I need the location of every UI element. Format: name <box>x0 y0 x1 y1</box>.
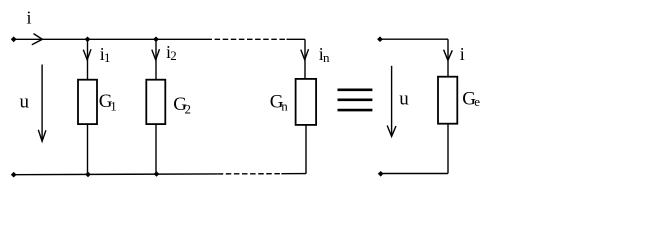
current arrow i2 <box>152 49 160 60</box>
wire: branch n lower <box>305 125 307 174</box>
svg-text:1: 1 <box>110 98 117 113</box>
svg-text:2: 2 <box>185 101 192 116</box>
wire: top rail dashed middle <box>207 38 287 40</box>
current arrow i (right) <box>444 50 453 61</box>
current arrow i on top rail <box>32 34 43 45</box>
equivalence symbol (three bars) <box>338 90 373 110</box>
conductance G2 (box) <box>146 80 165 124</box>
wire: branch1 lower <box>87 124 89 174</box>
voltage arrow u (right circuit) <box>387 66 396 137</box>
junction: branch2 bottom <box>154 171 160 177</box>
svg-text:e: e <box>474 94 480 109</box>
node: left top terminal <box>11 36 17 42</box>
svg-text:n: n <box>281 99 288 114</box>
wire: top rail solid left <box>14 38 207 40</box>
conductance Ge (box) <box>438 77 457 124</box>
svg-text:i: i <box>27 8 32 28</box>
wire: branch n upper <box>304 39 306 79</box>
junction: branch1 bottom <box>85 172 91 178</box>
svg-text:n: n <box>323 50 330 65</box>
voltage arrow u (left circuit) <box>38 65 46 142</box>
wire: top rail solid right <box>287 38 306 40</box>
wire: bottom rail dashed middle <box>218 173 282 175</box>
wire: bottom rail solid left <box>14 173 218 176</box>
svg-text:1: 1 <box>104 50 111 65</box>
current arrow in <box>301 49 309 60</box>
node: left bottom terminal <box>11 172 17 178</box>
wire: right top rail <box>380 38 448 40</box>
node: right top terminal <box>377 36 383 42</box>
node: right bottom terminal <box>378 171 384 177</box>
wire: branch1 upper <box>87 39 89 79</box>
svg-text:u: u <box>399 88 409 109</box>
label G2 <box>173 94 191 116</box>
svg-text:i: i <box>460 44 465 64</box>
wire: right branch upper <box>447 39 449 76</box>
wire: right branch lower <box>447 124 449 174</box>
label in <box>319 44 330 65</box>
label G1 <box>99 91 117 113</box>
conductance G1 (box) <box>78 80 97 124</box>
conductance Gn (box) <box>296 79 317 125</box>
label Ge <box>462 88 480 109</box>
label i2 <box>166 42 177 63</box>
current arrow i1 <box>83 49 91 60</box>
wire: bottom rail solid right <box>281 173 306 175</box>
wire: branch2 upper <box>155 39 157 79</box>
label i1 <box>100 44 111 65</box>
wire: branch2 lower <box>155 124 157 174</box>
junction: branch1 top <box>85 37 91 43</box>
svg-text:2: 2 <box>170 48 177 63</box>
label Gn <box>270 92 289 114</box>
junction: branch2 top <box>153 37 159 43</box>
svg-text:u: u <box>20 92 30 113</box>
wire: right bottom rail <box>381 173 448 175</box>
